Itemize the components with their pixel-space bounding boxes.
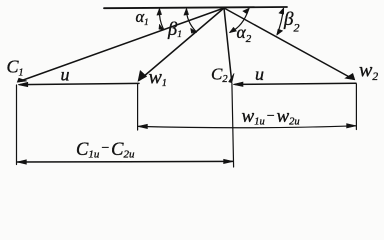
svg-text:u: u bbox=[255, 64, 264, 84]
vector c2 bbox=[224, 8, 232, 81]
extension line from c1 tip bbox=[16, 85, 18, 165]
vector c1 bbox=[19, 8, 224, 82]
extension line from w1 tip bbox=[137, 84, 139, 130]
svg-text:u: u bbox=[61, 64, 70, 84]
u (right triangle base) bbox=[235, 83, 356, 84]
extension line from w2 tip bbox=[355, 84, 357, 130]
extension line from c2 tip bbox=[232, 83, 234, 167]
u (left triangle base) bbox=[20, 83, 139, 84]
dimension line c1u - c2u bbox=[17, 160, 233, 163]
dimension line w1u - w2u bbox=[138, 126, 356, 128]
angle arc alpha2 bbox=[230, 9, 249, 32]
angle arc beta2 bbox=[277, 9, 283, 35]
vector w2 bbox=[224, 8, 353, 79]
top reference line (u direction) bbox=[104, 7, 287, 8]
angle arc beta1 bbox=[186, 9, 196, 31]
vector w1 bbox=[140, 8, 225, 80]
angle arc alpha1 bbox=[159, 9, 163, 29]
